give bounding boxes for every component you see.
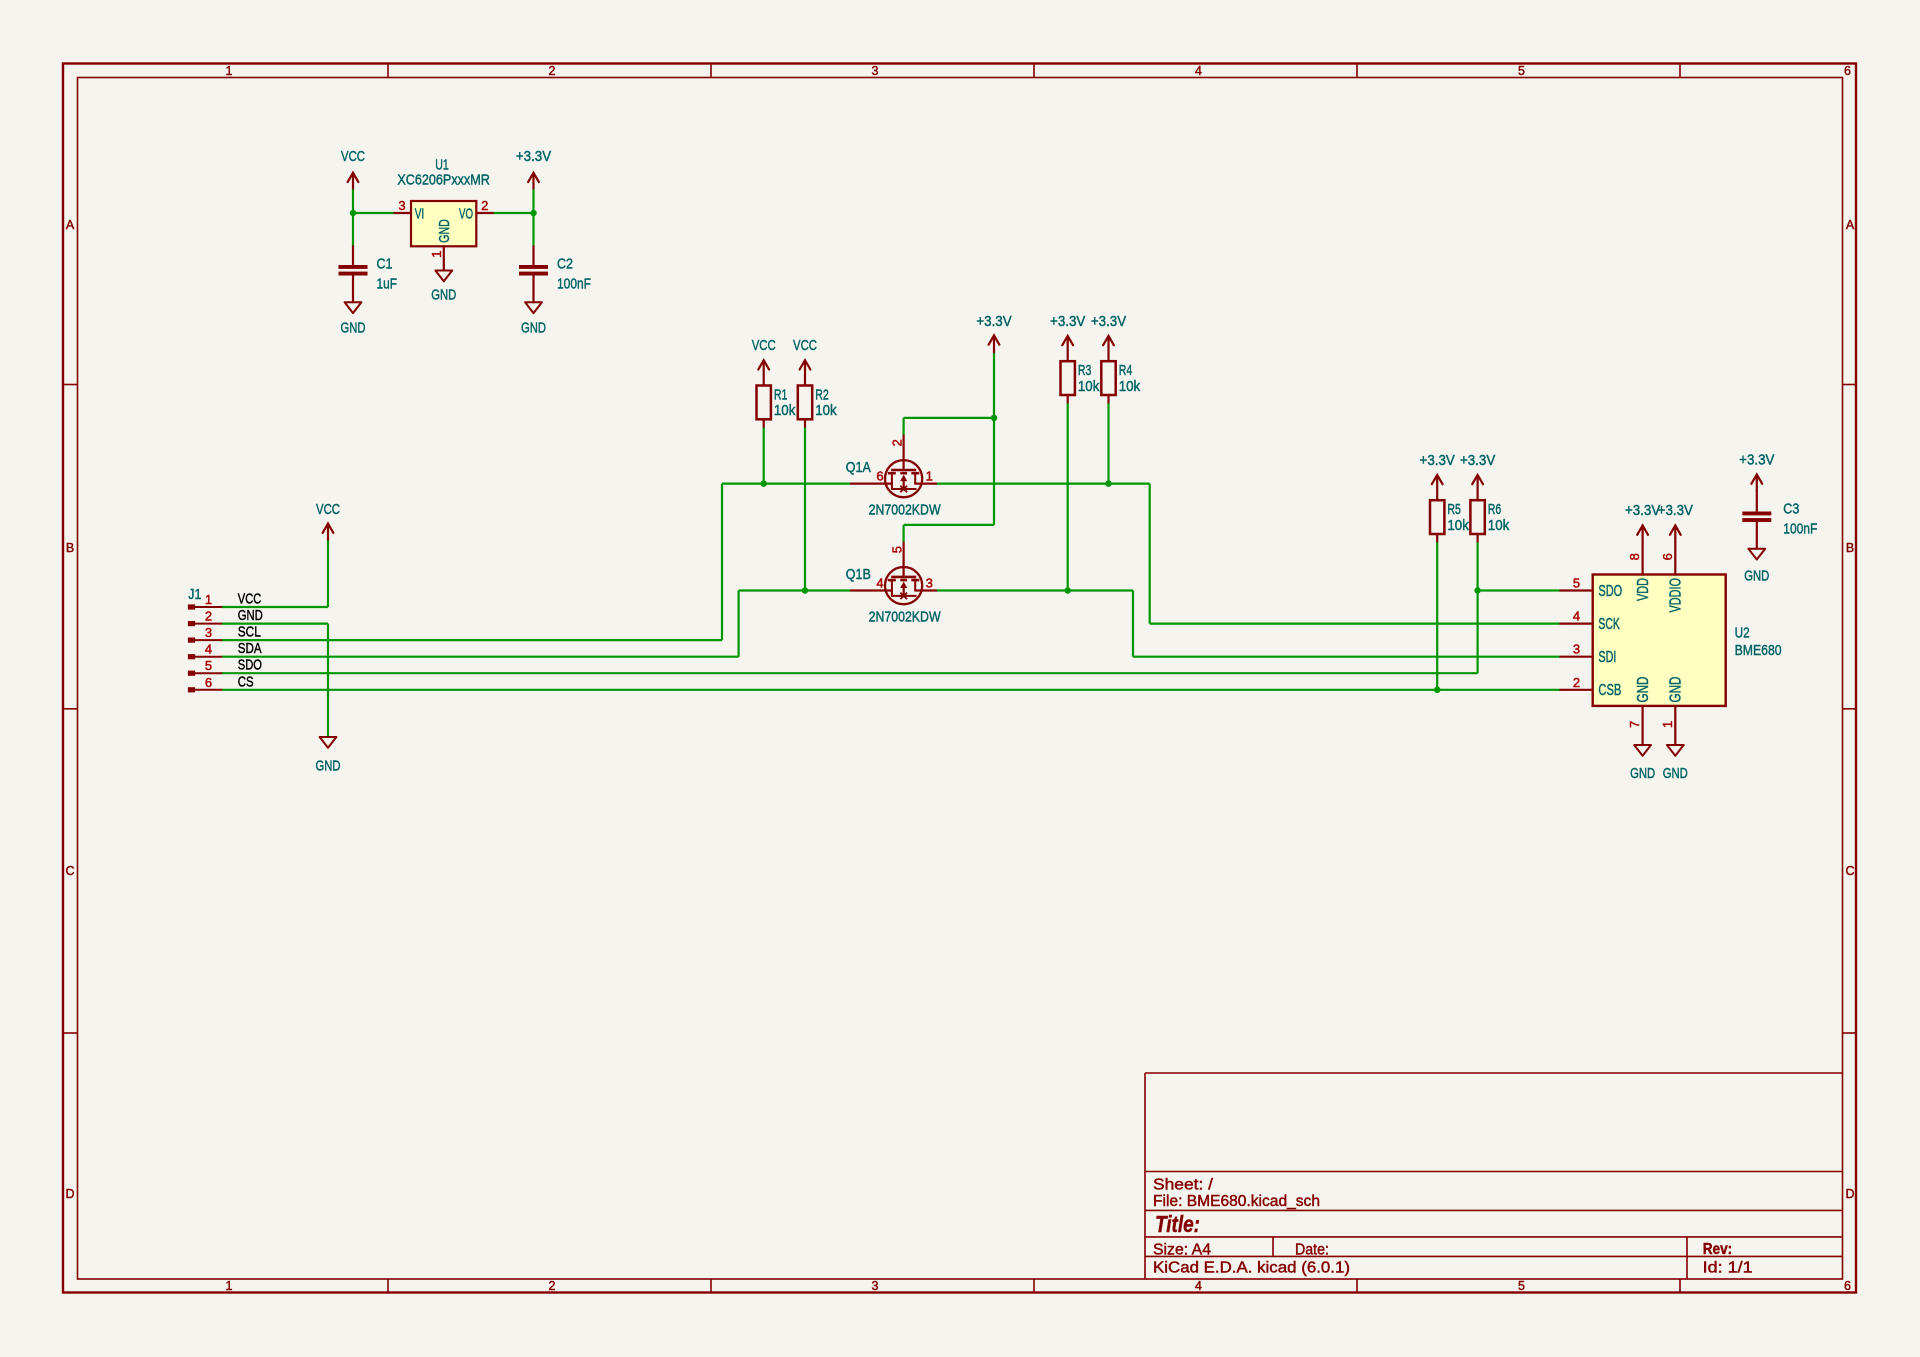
svg-text:GND: GND (436, 219, 453, 243)
svg-text:VDD: VDD (1635, 578, 1652, 601)
svg-text:SDI: SDI (1598, 649, 1616, 666)
svg-text:2N7002KDW: 2N7002KDW (869, 608, 942, 625)
svg-text:Title:: Title: (1155, 1211, 1200, 1237)
svg-text:R5: R5 (1447, 501, 1461, 518)
svg-text:1uF: 1uF (377, 276, 398, 293)
svg-text:4: 4 (876, 576, 883, 591)
svg-text:SDO: SDO (238, 657, 262, 674)
svg-text:100nF: 100nF (557, 276, 591, 293)
svg-text:KiCad E.D.A. kicad (6.0.1): KiCad E.D.A. kicad (6.0.1) (1153, 1260, 1350, 1277)
svg-text:1: 1 (429, 251, 444, 258)
svg-text:SDA: SDA (238, 640, 262, 657)
svg-text:3: 3 (398, 198, 405, 213)
svg-text:1: 1 (205, 592, 212, 607)
svg-text:5: 5 (205, 658, 212, 673)
svg-text:3: 3 (872, 1279, 879, 1293)
svg-text:2: 2 (205, 609, 212, 624)
svg-text:BME680: BME680 (1735, 642, 1782, 659)
svg-text:2: 2 (1573, 675, 1580, 690)
svg-text:GND: GND (238, 607, 263, 624)
svg-text:C1: C1 (377, 255, 393, 272)
svg-text:VCC: VCC (341, 148, 365, 165)
svg-text:R1: R1 (774, 387, 788, 404)
svg-text:100nF: 100nF (1783, 521, 1817, 538)
svg-text:+3.3V: +3.3V (1739, 452, 1774, 469)
svg-text:U2: U2 (1735, 624, 1750, 641)
svg-text:GND: GND (316, 758, 341, 775)
svg-text:4: 4 (1573, 609, 1580, 624)
svg-text:2: 2 (549, 64, 556, 78)
svg-text:VCC: VCC (238, 591, 262, 608)
svg-text:C3: C3 (1783, 501, 1799, 518)
svg-text:VDDIO: VDDIO (1668, 578, 1685, 613)
svg-text:GND: GND (1668, 677, 1685, 703)
svg-text:1: 1 (226, 1279, 233, 1293)
svg-text:XC6206PxxxMR: XC6206PxxxMR (397, 172, 490, 189)
svg-text:3: 3 (1573, 642, 1580, 657)
svg-text:R6: R6 (1488, 501, 1502, 518)
svg-text:2N7002KDW: 2N7002KDW (869, 501, 942, 518)
svg-text:3: 3 (926, 576, 933, 591)
svg-text:SDO: SDO (1598, 583, 1622, 600)
svg-text:2: 2 (481, 198, 488, 213)
svg-text:R2: R2 (815, 387, 829, 404)
svg-text:+3.3V: +3.3V (1658, 502, 1693, 519)
svg-text:A: A (1846, 218, 1855, 232)
svg-text:Size: A4: Size: A4 (1153, 1242, 1211, 1259)
svg-text:+3.3V: +3.3V (1091, 313, 1126, 330)
svg-text:10k: 10k (1447, 517, 1469, 534)
svg-text:4: 4 (205, 642, 212, 657)
svg-text:10k: 10k (1119, 378, 1141, 395)
svg-text:GND: GND (1630, 765, 1655, 782)
svg-text:10k: 10k (1488, 517, 1510, 534)
svg-text:6: 6 (1844, 1279, 1851, 1293)
svg-text:Sheet: /: Sheet: / (1153, 1176, 1214, 1193)
svg-text:J1: J1 (188, 586, 201, 603)
svg-text:VI: VI (415, 205, 425, 222)
svg-text:B: B (66, 541, 74, 555)
svg-text:10k: 10k (774, 402, 796, 419)
svg-text:CS: CS (238, 673, 254, 690)
svg-text:GND: GND (521, 320, 546, 337)
svg-text:VCC: VCC (793, 337, 817, 354)
svg-text:R3: R3 (1078, 362, 1092, 379)
svg-text:5: 5 (1573, 576, 1580, 591)
svg-text:C: C (65, 864, 74, 878)
svg-text:8: 8 (1627, 553, 1642, 560)
svg-text:CSB: CSB (1598, 682, 1621, 699)
svg-text:5: 5 (1518, 64, 1525, 78)
svg-text:1: 1 (926, 469, 933, 484)
svg-text:10k: 10k (1078, 378, 1100, 395)
svg-text:+3.3V: +3.3V (516, 148, 551, 165)
svg-text:+3.3V: +3.3V (1625, 502, 1660, 519)
svg-text:+3.3V: +3.3V (1420, 452, 1455, 469)
svg-text:2: 2 (890, 439, 905, 446)
svg-text:GND: GND (1663, 765, 1688, 782)
svg-text:File: BME680.kicad_sch: File: BME680.kicad_sch (1153, 1193, 1320, 1210)
svg-text:4: 4 (1195, 1279, 1202, 1293)
svg-text:Q1A: Q1A (846, 459, 871, 476)
svg-text:VCC: VCC (752, 337, 776, 354)
svg-text:Q1B: Q1B (846, 566, 871, 583)
svg-text:C: C (1845, 864, 1854, 878)
svg-text:VCC: VCC (316, 501, 340, 518)
svg-text:R4: R4 (1119, 362, 1133, 379)
svg-text:2: 2 (549, 1279, 556, 1293)
svg-text:Id: 1/1: Id: 1/1 (1703, 1259, 1753, 1276)
svg-text:6: 6 (205, 675, 212, 690)
svg-text:D: D (65, 1187, 74, 1201)
svg-text:B: B (1846, 541, 1854, 555)
svg-text:1: 1 (1660, 721, 1675, 728)
svg-text:4: 4 (1195, 64, 1202, 78)
svg-text:SCL: SCL (238, 624, 261, 641)
svg-text:+3.3V: +3.3V (976, 313, 1011, 330)
svg-text:7: 7 (1627, 721, 1642, 728)
svg-text:GND: GND (1744, 568, 1769, 585)
svg-text:6: 6 (1844, 64, 1851, 78)
svg-text:6: 6 (1660, 553, 1675, 560)
svg-text:+3.3V: +3.3V (1050, 313, 1085, 330)
svg-text:10k: 10k (815, 402, 837, 419)
svg-text:3: 3 (205, 625, 212, 640)
svg-text:GND: GND (341, 320, 366, 337)
svg-text:1: 1 (226, 64, 233, 78)
svg-text:6: 6 (876, 469, 883, 484)
svg-text:D: D (1845, 1187, 1854, 1201)
svg-text:GND: GND (431, 287, 456, 304)
svg-text:C2: C2 (557, 255, 573, 272)
svg-text:GND: GND (1635, 677, 1652, 703)
svg-text:Date:: Date: (1295, 1242, 1329, 1259)
svg-text:+3.3V: +3.3V (1460, 452, 1495, 469)
svg-text:VO: VO (459, 205, 473, 222)
svg-text:3: 3 (872, 64, 879, 78)
svg-text:Rev:: Rev: (1703, 1241, 1733, 1258)
svg-text:5: 5 (890, 546, 905, 553)
svg-text:SCK: SCK (1598, 616, 1620, 633)
svg-text:5: 5 (1518, 1279, 1525, 1293)
svg-text:A: A (66, 218, 75, 232)
